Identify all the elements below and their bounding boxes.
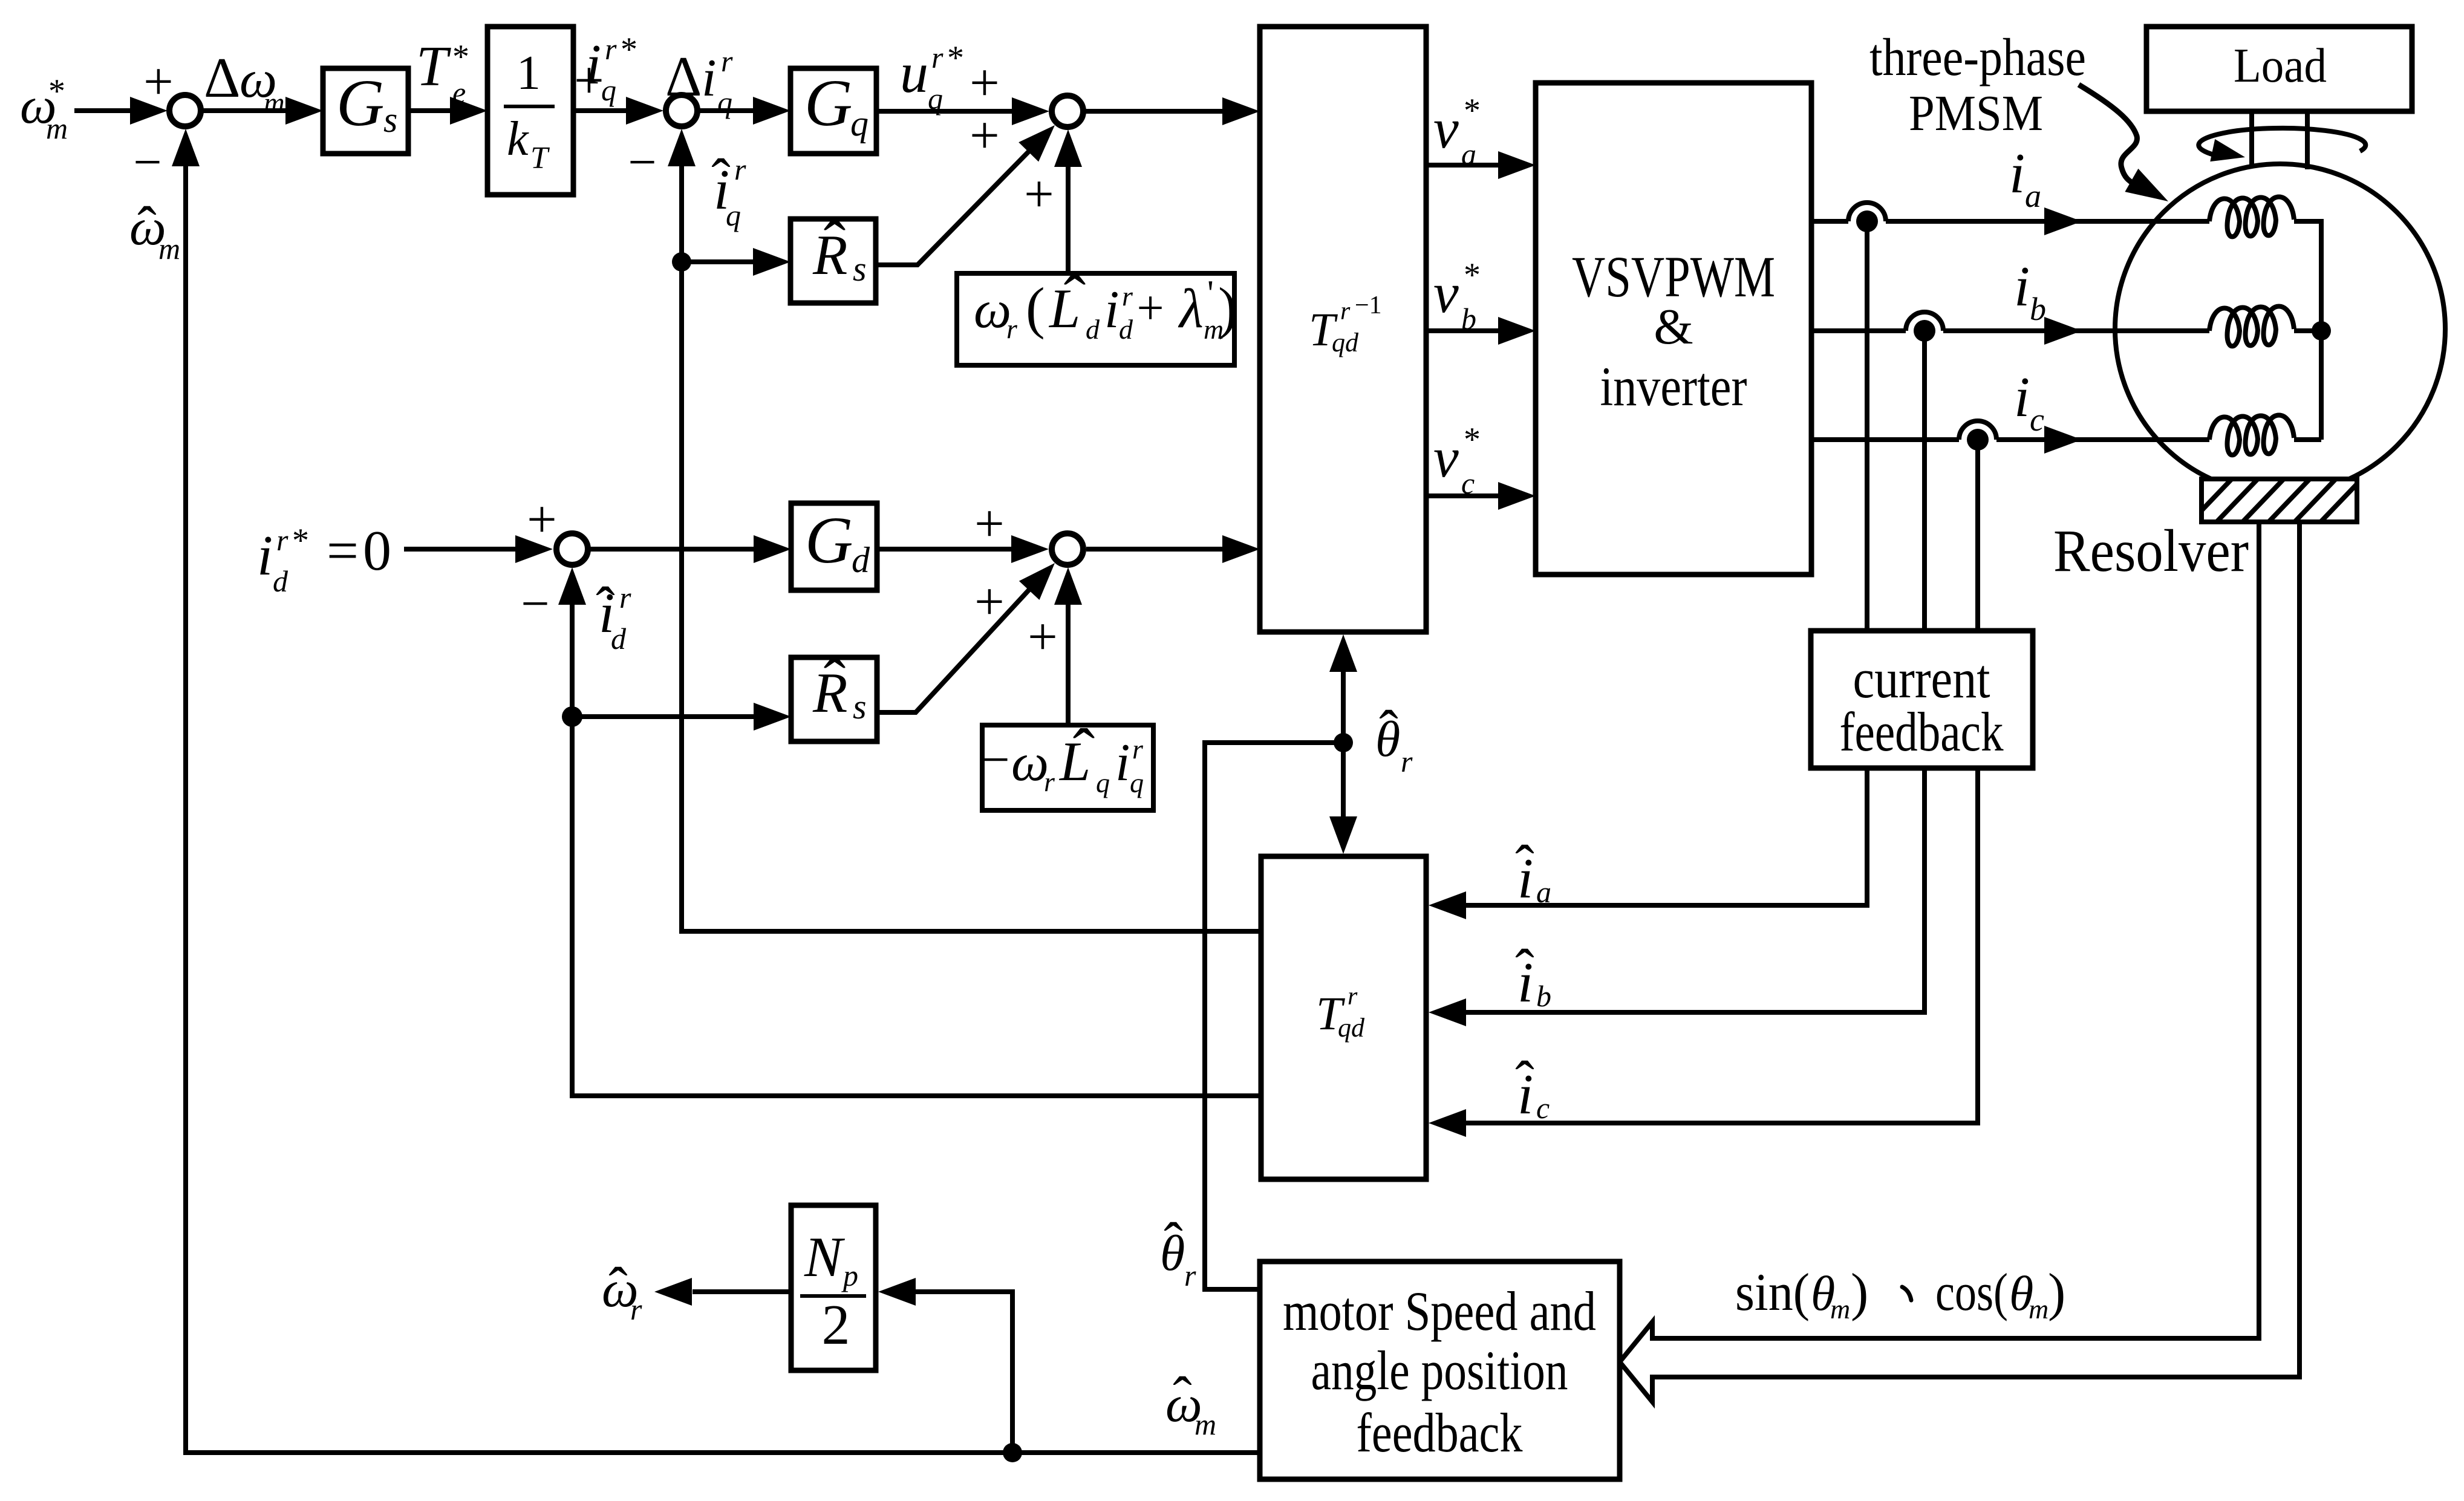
- svg-text:=: =: [327, 519, 359, 582]
- svg-text:+: +: [1136, 282, 1164, 335]
- summing junction J5: [1052, 533, 1083, 565]
- PMSM motor circle: [2115, 164, 2445, 494]
- svg-text:ˆ: ˆ: [137, 195, 157, 259]
- node omega_m* input wire: [74, 97, 168, 125]
- svg-text:b: b: [1461, 302, 1476, 336]
- wire Np/2 output: [654, 1278, 791, 1306]
- svg-text:+: +: [974, 573, 1005, 631]
- svg-text:Resolver: Resolver: [2053, 517, 2249, 584]
- svg-text:m: m: [46, 111, 68, 145]
- wire diag Rs1 to J3: [876, 125, 1055, 265]
- svg-text:m: m: [1830, 1294, 1850, 1324]
- block Tqd-r: [1261, 856, 1426, 1179]
- svg-text:ˆ: ˆ: [1379, 698, 1398, 763]
- wire i_d-hat to Rs2: [572, 703, 791, 731]
- svg-text:q: q: [726, 198, 741, 232]
- label i_c: [2014, 366, 2044, 438]
- svg-text:+: +: [974, 495, 1005, 553]
- block Rs1: [790, 207, 876, 303]
- svg-text:k: k: [507, 112, 529, 166]
- svg-text:r: r: [1340, 298, 1351, 325]
- svg-text:): ): [1851, 1263, 1868, 1322]
- svg-text:e: e: [452, 76, 466, 109]
- label sin cos: [1735, 1263, 2065, 1324]
- wire i_q-hat up into J2: [668, 129, 696, 262]
- wire J3 to Tqd-inv: [1086, 97, 1260, 125]
- svg-text:current: current: [1853, 648, 1990, 709]
- svg-text:c: c: [2030, 402, 2044, 438]
- wire i_c phase: [1811, 426, 2209, 454]
- svg-text:ˆ: ˆ: [1164, 1211, 1183, 1275]
- svg-text:v: v: [1433, 97, 1459, 160]
- label i_a-hat: [1515, 833, 1551, 910]
- block omega_r feedforward q: [957, 262, 1237, 365]
- wire i_a-hat feedback: [1429, 768, 1867, 919]
- svg-text:PMSM: PMSM: [1909, 85, 2043, 142]
- label v_a*: [1433, 92, 1481, 171]
- svg-text:Load: Load: [2234, 39, 2327, 93]
- svg-text:angle position: angle position: [1311, 1340, 1568, 1401]
- svg-text:T: T: [416, 35, 451, 98]
- svg-text:i: i: [2009, 142, 2025, 205]
- svg-text:feedback: feedback: [1840, 701, 2004, 763]
- svg-text:i: i: [1115, 734, 1130, 792]
- svg-text:ω: ω: [974, 281, 1011, 339]
- block VSVPWM inverter: [1536, 83, 1811, 575]
- svg-text:+: +: [527, 490, 557, 549]
- svg-text:r: r: [1132, 734, 1144, 764]
- wire branch to Np/2: [878, 1278, 1012, 1453]
- svg-text:p: p: [841, 1258, 858, 1292]
- rotation arrow: [2198, 128, 2365, 161]
- label plus J3 lower: [970, 106, 1000, 165]
- svg-text:inverter: inverter: [1600, 356, 1747, 417]
- svg-text:ˆ: ˆ: [608, 1255, 628, 1320]
- svg-text:(: (: [1026, 276, 1045, 340]
- label T_e*: [416, 35, 469, 109]
- svg-text:+: +: [1024, 165, 1054, 224]
- junction dot omega_m-hat branch: [1003, 1443, 1022, 1462]
- svg-text:+: +: [970, 106, 1000, 165]
- wire omega_m-hat feedback: [172, 129, 1260, 1453]
- svg-text:r: r: [734, 152, 746, 186]
- svg-text:r: r: [605, 32, 617, 66]
- block Rs2: [791, 645, 877, 741]
- svg-text:q: q: [1130, 767, 1144, 798]
- summing junction J1: [169, 95, 201, 126]
- current sensor node b: [1906, 312, 1943, 342]
- resolver hatched block: [2191, 479, 2362, 522]
- shaft lines: [2252, 111, 2307, 169]
- wire diag Rs2 to J5: [877, 563, 1055, 712]
- svg-text:r: r: [1184, 1258, 1196, 1292]
- svg-text:&: &: [1654, 299, 1693, 355]
- svg-text:r: r: [619, 581, 631, 614]
- label i_b-hat: [1515, 937, 1551, 1014]
- wire i_q-hat to Rs1: [682, 248, 790, 276]
- block motor speed feedback: [1260, 1262, 1620, 1479]
- wire i_b phase: [1811, 317, 2209, 345]
- label plus J5 vertical: [1028, 608, 1058, 666]
- label i_b: [2014, 255, 2046, 327]
- svg-text:): ): [1218, 276, 1237, 340]
- label plus J5 diag: [974, 573, 1005, 631]
- svg-text:d: d: [1086, 314, 1100, 345]
- svg-text:r: r: [276, 523, 288, 557]
- svg-text:m: m: [264, 87, 285, 119]
- svg-text:): ): [2048, 1263, 2065, 1322]
- wire i_d-hat up into J4: [558, 567, 586, 717]
- label Resolver: [2053, 517, 2249, 584]
- svg-text:d: d: [611, 622, 627, 656]
- svg-text:d: d: [273, 564, 288, 598]
- svg-text:*: *: [621, 31, 637, 68]
- block current feedback: [1811, 631, 2033, 768]
- label minus J4: [521, 576, 549, 632]
- svg-text:−1: −1: [1355, 291, 1382, 319]
- stator coil c: [2209, 415, 2294, 455]
- svg-text:ˆ: ˆ: [824, 207, 846, 281]
- node i_d* = 0 input wire: [404, 535, 553, 563]
- svg-text:m: m: [2029, 1294, 2048, 1324]
- current sensor node c: [1959, 421, 1996, 451]
- label i_c-hat: [1515, 1049, 1550, 1126]
- svg-text:−: −: [133, 134, 161, 190]
- svg-text:G: G: [805, 503, 853, 577]
- svg-text:+: +: [970, 54, 1000, 112]
- svg-text:s: s: [853, 687, 867, 726]
- label i_q^r*: [585, 31, 637, 107]
- wire theta_r to speed block: [1205, 743, 1343, 1289]
- label minus J2: [628, 134, 656, 190]
- svg-text:c: c: [1461, 466, 1475, 500]
- summing junction J4: [556, 533, 588, 565]
- svg-text:ˆ: ˆ: [1515, 1049, 1534, 1113]
- svg-text:ω: ω: [1011, 734, 1049, 792]
- wire i_q-hat down to Tqd: [682, 262, 1261, 931]
- junction dot theta_r: [1334, 733, 1353, 752]
- svg-text:q: q: [717, 85, 732, 119]
- wire v_a* to inverter: [1426, 151, 1536, 179]
- svg-text:ˆ: ˆ: [824, 645, 846, 719]
- stator coil b: [2209, 307, 2294, 347]
- wire sensor a down: [1865, 221, 1869, 631]
- wire omega_r box to J3: [1054, 129, 1082, 273]
- wire J2 to Gq: [700, 97, 790, 125]
- svg-text:s: s: [853, 249, 867, 288]
- svg-text:q: q: [850, 103, 869, 143]
- svg-text:i: i: [2014, 255, 2030, 318]
- svg-text:*: *: [292, 522, 309, 559]
- svg-text:cos(: cos(: [1935, 1263, 2008, 1322]
- svg-text:+: +: [574, 51, 604, 110]
- neutral junction dot: [2312, 321, 2331, 340]
- svg-text:1: 1: [517, 47, 541, 100]
- svg-text:λ: λ: [1178, 278, 1204, 339]
- wire i_c-hat feedback: [1429, 768, 1978, 1137]
- block Gq: [790, 66, 876, 154]
- block Gs: [323, 66, 408, 154]
- wire Gq to J3: [876, 97, 1049, 125]
- wire i_b-hat feedback: [1429, 768, 1925, 1026]
- wire Gd to J5: [877, 535, 1049, 563]
- wire theta_r double arrow: [1329, 634, 1357, 854]
- svg-text:c: c: [1536, 1091, 1550, 1125]
- svg-text:r: r: [1348, 983, 1358, 1011]
- label three-phase PMSM: [1869, 28, 2086, 142]
- label omega_m-hat low: [1165, 1365, 1216, 1441]
- svg-text:i: i: [702, 49, 716, 108]
- svg-text:2: 2: [822, 1294, 850, 1356]
- wire i_a phase: [1811, 207, 2209, 235]
- wire coil a to neutral: [2294, 221, 2321, 440]
- svg-text:v: v: [1433, 426, 1459, 489]
- label v_c*: [1433, 421, 1481, 500]
- svg-text:r: r: [630, 1292, 642, 1326]
- block Load: [2146, 27, 2412, 111]
- svg-text:ˆ: ˆ: [1073, 715, 1095, 789]
- svg-text:qd: qd: [1338, 1013, 1365, 1043]
- svg-text:*: *: [1464, 256, 1481, 294]
- block Np/2: [791, 1205, 876, 1370]
- svg-text:r: r: [1006, 313, 1018, 344]
- svg-text:s: s: [383, 100, 397, 140]
- wire v_b* to inverter: [1426, 317, 1536, 345]
- svg-text:q: q: [1096, 767, 1110, 798]
- label i_d^r* = 0: [257, 519, 391, 598]
- summing junction J2: [666, 95, 697, 126]
- wire i_d-hat down to Tqd: [572, 717, 1261, 1096]
- svg-text:u: u: [900, 42, 928, 105]
- svg-text:m: m: [1195, 1407, 1216, 1441]
- svg-text:d: d: [852, 540, 870, 580]
- svg-text:G: G: [804, 66, 852, 140]
- svg-text:ˆ: ˆ: [1515, 833, 1534, 897]
- wire J1 to Gs: [203, 97, 323, 125]
- label plus J3 vertical: [1024, 165, 1054, 224]
- wire sensor b down: [1922, 331, 1927, 631]
- label v_b*: [1433, 256, 1481, 336]
- svg-text:a: a: [1461, 137, 1476, 171]
- block Gd: [791, 503, 877, 590]
- svg-text:v: v: [1433, 262, 1459, 325]
- summing junction J3: [1052, 96, 1083, 127]
- wire sensor c down: [1975, 440, 1980, 631]
- svg-text:Δ: Δ: [204, 47, 240, 109]
- svg-text:ˆ: ˆ: [1173, 1365, 1192, 1429]
- svg-text:r: r: [1122, 281, 1133, 311]
- svg-text:*: *: [947, 39, 964, 77]
- block -omega_r Lq iq: [981, 715, 1153, 810]
- wire coil b to neutral: [2294, 328, 2321, 333]
- label Delta omega_m: [204, 47, 285, 119]
- svg-text:+: +: [1028, 608, 1058, 666]
- svg-text:r: r: [931, 41, 944, 74]
- label theta_r-hat low: [1160, 1211, 1196, 1292]
- label i_q-hat^r: [711, 147, 746, 232]
- wire Gs to 1/kT: [408, 97, 487, 125]
- svg-text:r: r: [721, 44, 733, 78]
- svg-text:0: 0: [363, 519, 391, 582]
- label i_d-hat^r: [596, 575, 631, 656]
- stator coil a: [2209, 197, 2294, 237]
- wire coil c to neutral: [2294, 437, 2321, 442]
- svg-text:i: i: [2014, 366, 2030, 429]
- svg-text:G: G: [336, 66, 384, 140]
- label plus J3 upper: [970, 54, 1000, 112]
- svg-text:r: r: [1401, 744, 1413, 778]
- svg-text:q: q: [928, 82, 943, 116]
- block 1/kT: [487, 27, 573, 195]
- svg-text:Δ: Δ: [665, 45, 702, 108]
- svg-text:−: −: [628, 134, 656, 190]
- svg-text:three-phase: three-phase: [1869, 28, 2086, 87]
- label omega_m-hat top: [129, 195, 180, 265]
- wire 1/kT to J2: [573, 97, 663, 125]
- svg-text:+: +: [143, 53, 174, 111]
- svg-text:b: b: [2030, 291, 2046, 327]
- wire J5 to Tqd-inv: [1086, 535, 1260, 563]
- svg-text:N: N: [804, 1226, 846, 1289]
- wire -omega_r box to J5: [1054, 567, 1082, 725]
- label plus J1: [143, 53, 174, 111]
- svg-text:−: −: [521, 576, 549, 632]
- wire v_c* to inverter: [1426, 482, 1536, 510]
- svg-text:*: *: [1464, 92, 1481, 129]
- junction dot i_d-hat: [562, 706, 582, 727]
- junction dot i_q-hat: [672, 252, 691, 272]
- svg-text:motor Speed and: motor Speed and: [1283, 1280, 1596, 1342]
- svg-text:m: m: [158, 232, 180, 265]
- label plus J5 left: [974, 495, 1005, 553]
- svg-text:*: *: [48, 73, 65, 110]
- wire J4 to Gd: [590, 535, 791, 563]
- label omega_r-hat: [602, 1255, 642, 1326]
- svg-text:ˆ: ˆ: [1515, 937, 1534, 1001]
- svg-text:feedback: feedback: [1357, 1402, 1523, 1464]
- svg-text:sin(: sin(: [1735, 1263, 1810, 1322]
- svg-text:r: r: [1044, 766, 1055, 797]
- wire sin cos signals: [1620, 522, 2299, 1402]
- svg-text:': ': [1207, 273, 1214, 313]
- label u_q^r*: [900, 39, 964, 116]
- svg-text:d: d: [1119, 314, 1133, 345]
- label Delta i_q^r: [665, 44, 733, 119]
- label minus J1: [133, 134, 161, 190]
- label plus J4: [527, 490, 557, 549]
- current sensor node a: [1848, 203, 1886, 232]
- svg-text:i: i: [257, 524, 273, 587]
- svg-text:a: a: [2025, 178, 2041, 214]
- label omega_m*: [20, 73, 68, 145]
- leader curve to motor: [2079, 85, 2168, 201]
- svg-text:i: i: [1104, 281, 1119, 339]
- svg-text:a: a: [1536, 875, 1551, 909]
- svg-text:b: b: [1536, 979, 1551, 1013]
- block Tqd-r-inverse: [1260, 27, 1426, 632]
- svg-text:−: −: [981, 732, 1009, 788]
- label i_a: [2009, 142, 2041, 214]
- svg-text:*: *: [1464, 421, 1481, 458]
- svg-text:*: *: [452, 38, 469, 76]
- label theta_r-hat mid: [1375, 698, 1413, 778]
- svg-text:qd: qd: [1332, 328, 1359, 357]
- svg-text:T: T: [530, 141, 550, 175]
- label plus J2: [574, 51, 604, 110]
